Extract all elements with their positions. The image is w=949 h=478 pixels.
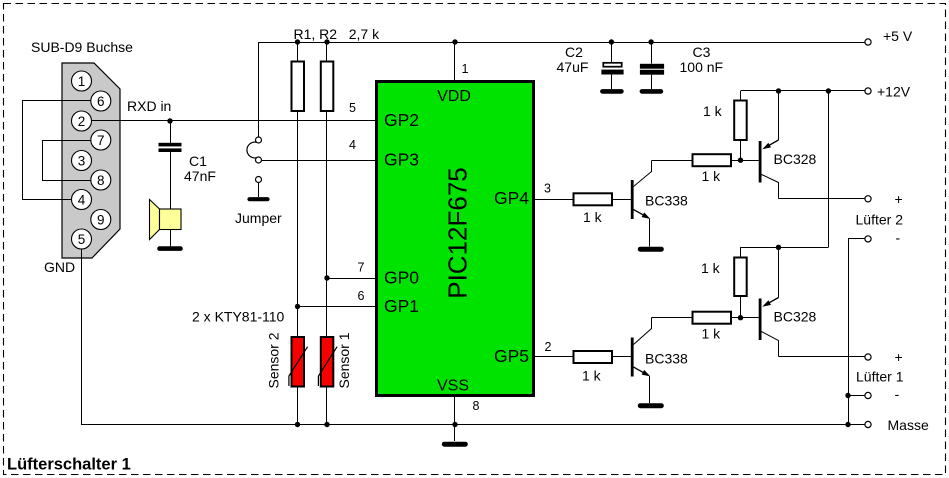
- svg-text:8: 8: [97, 173, 105, 188]
- svg-text:1 k: 1 k: [701, 260, 721, 276]
- connector pin 2: [72, 111, 92, 131]
- svg-text:VSS: VSS: [437, 378, 469, 395]
- svg-text:GP5: GP5: [494, 346, 529, 366]
- svg-text:3: 3: [78, 153, 86, 168]
- capacitor C2 47uF: [609, 39, 614, 44]
- svg-text:100 nF: 100 nF: [680, 59, 724, 75]
- svg-text:BC328: BC328: [774, 151, 817, 167]
- wire net GP5 to base resistor: [535, 356, 574, 358]
- resistor R1: [297, 42, 299, 62]
- wire jumper pullup drop from +5V rail: [258, 42, 260, 137]
- connector pin 8: [91, 170, 111, 190]
- ground C3: [642, 89, 661, 94]
- speaker buzzer: [150, 200, 160, 240]
- junction minus bus ground rail: [845, 422, 850, 427]
- wire speaker to ground: [170, 230, 172, 247]
- svg-text:GP3: GP3: [384, 150, 419, 170]
- svg-text:Masse: Masse: [888, 417, 929, 433]
- terminal Masse: [865, 421, 871, 427]
- wire +5V top rail: [259, 42, 866, 44]
- svg-text:1 k: 1 k: [703, 103, 723, 119]
- resistor 1 k base Q1: [574, 193, 613, 205]
- junction R1 top: [295, 39, 300, 44]
- sensor Sensor 1 KTY81-110: [326, 278, 328, 337]
- connector pin 9: [91, 210, 111, 230]
- resistor 1 k pullup Q2: [740, 91, 742, 101]
- svg-text:7: 7: [358, 261, 365, 275]
- IC U1 PIC12F675: [377, 82, 534, 396]
- svg-text:Jumper: Jumper: [235, 210, 282, 226]
- junction sensor2 ground: [295, 422, 300, 427]
- wire Q3 emitter to ground: [649, 376, 651, 403]
- connector pin 1: [72, 71, 92, 91]
- jumper JP1 arc: [247, 142, 257, 158]
- ground VSS: [444, 442, 465, 447]
- transistor Q2 collector: [762, 175, 779, 199]
- connector pin 7: [91, 130, 111, 150]
- svg-text:GP2: GP2: [384, 110, 419, 130]
- wire +12V rail: [741, 90, 866, 92]
- svg-text:9: 9: [97, 212, 105, 227]
- ground Q3 emitter: [640, 403, 661, 408]
- junction minus bus Luefter 1: [845, 393, 850, 398]
- svg-text:1: 1: [462, 62, 469, 76]
- wire jumper lower pin to ground: [258, 183, 260, 198]
- junction RXD/C1: [167, 118, 172, 123]
- connector J1 SUB-D9 body: [62, 63, 120, 258]
- terminal +12V: [865, 88, 871, 94]
- connector pin 4: [72, 190, 92, 210]
- svg-text:1: 1: [78, 74, 86, 89]
- junction Q4 emitter feed: [776, 245, 781, 250]
- wire resistor to Q3 base: [612, 356, 631, 358]
- wire Q3 collector to 1 k: [652, 317, 693, 319]
- connector pin 3: [72, 151, 92, 171]
- svg-text:GND: GND: [44, 259, 75, 275]
- svg-text:-: -: [895, 386, 900, 402]
- wire resistor to Q1 base: [612, 199, 631, 201]
- resistor R2: [326, 42, 328, 62]
- svg-text:-: -: [896, 230, 901, 246]
- ground C2: [602, 89, 621, 94]
- wire R2 bottom to GP0: [326, 111, 328, 278]
- svg-text:RXD in: RXD in: [127, 98, 171, 114]
- transistor Q1 BC338 base bar: [631, 180, 634, 219]
- wire Q4 collector to Luefter 1 +: [779, 356, 866, 358]
- svg-text:+12V: +12V: [877, 84, 911, 100]
- wire channel2 +12V feed rail: [741, 247, 829, 249]
- svg-text:1 k: 1 k: [702, 326, 722, 342]
- junction VDD rail: [452, 39, 457, 44]
- transistor Q3 BC338 base bar: [631, 338, 634, 377]
- transistor Q3 collector: [634, 318, 652, 345]
- jumper JP1 middle pin: [256, 157, 262, 163]
- junction VSS ground rail: [452, 422, 457, 427]
- wire net GP4 to base resistor: [535, 199, 574, 201]
- junction GP0/sensor1: [324, 275, 329, 280]
- wire coupling resistor to Q4 base: [731, 317, 759, 319]
- transistor Q2 BC328 base bar: [759, 141, 762, 183]
- ground Q1 emitter: [640, 247, 661, 252]
- junction sensor1 ground: [324, 422, 329, 427]
- svg-text:C3: C3: [693, 44, 711, 60]
- svg-text:PIC12F675: PIC12F675: [443, 167, 473, 299]
- terminal Luefter 1 +: [865, 354, 871, 360]
- junction GP1/sensor2: [295, 304, 300, 309]
- wire Q1 emitter to ground: [649, 219, 651, 247]
- svg-text:1 k: 1 k: [582, 368, 602, 384]
- wire net GP3: jumper to chip: [262, 160, 376, 162]
- resistor 1 k Q1-Q2 coupling: [693, 154, 732, 166]
- wire +12V feed to channel 2: [828, 91, 830, 247]
- svg-text:C2: C2: [565, 44, 583, 60]
- wire coupling resistor to Q2 base: [731, 160, 759, 162]
- svg-text:VDD: VDD: [437, 88, 471, 105]
- connector pin 5: [72, 229, 92, 249]
- transistor Q4 collector: [762, 332, 779, 357]
- svg-text:GP4: GP4: [494, 188, 529, 208]
- wire Q2 collector to Luefter 2 +: [779, 198, 866, 200]
- ground jumper: [250, 197, 268, 201]
- wire pin7 to pin8 bracket: [43, 141, 91, 181]
- svg-text:+: +: [895, 349, 903, 365]
- svg-text:Lüfter 2: Lüfter 2: [856, 212, 904, 228]
- wire net RXD: pin2 to GP2: [92, 120, 376, 122]
- svg-text:Lüfter 1: Lüfter 1: [856, 369, 904, 385]
- transistor Q1 emitter: [634, 210, 649, 218]
- svg-text:SUB-D9 Buchse: SUB-D9 Buchse: [31, 39, 133, 55]
- resistor 1 k pullup Q4: [740, 247, 742, 257]
- svg-text:GP1: GP1: [384, 296, 419, 316]
- svg-text:5: 5: [349, 101, 356, 115]
- svg-text:47nF: 47nF: [184, 168, 216, 184]
- wire Luefter 2 - to minus bus: [849, 239, 865, 425]
- wire R1 bottom to GP1: [297, 111, 299, 307]
- wire pin6 to pin4 bracket: [23, 101, 91, 200]
- terminal +5 V: [865, 39, 871, 45]
- ground speaker: [160, 246, 181, 251]
- wire net GP1: [298, 306, 376, 308]
- wire net GP0: [327, 278, 376, 280]
- terminal Luefter 2 +: [865, 196, 871, 202]
- transistor Q2 emitter: [778, 91, 780, 140]
- svg-text:4: 4: [349, 138, 356, 152]
- transistor Q4 emitter: [778, 247, 780, 297]
- connector pin 6: [91, 91, 111, 111]
- capacitor C1: [170, 121, 172, 143]
- junction base Q4 / pullup: [738, 315, 743, 320]
- junction R2 top: [324, 39, 329, 44]
- wire VDD pin to +5V rail: [454, 42, 456, 81]
- svg-text:1 k: 1 k: [583, 209, 603, 225]
- svg-text:Lüfterschalter 1: Lüfterschalter 1: [7, 456, 131, 474]
- svg-text:2: 2: [545, 340, 552, 354]
- svg-text:BC338: BC338: [645, 351, 688, 367]
- svg-text:47uF: 47uF: [557, 59, 589, 75]
- wire VSS pin to ground rail: [454, 397, 456, 425]
- svg-text:4: 4: [78, 192, 86, 207]
- svg-text:7: 7: [97, 133, 105, 148]
- svg-text:+5 V: +5 V: [883, 28, 913, 44]
- junction +12V drop: [826, 88, 831, 93]
- svg-text:5: 5: [78, 232, 86, 247]
- svg-text:BC338: BC338: [645, 193, 688, 209]
- transistor Q3 emitter: [634, 367, 649, 375]
- wire Luefter 1 - stub: [848, 395, 865, 397]
- junction base Q2 / pullup: [738, 158, 743, 163]
- wire net GND rail: pin5 down and across bottom: [82, 249, 865, 425]
- svg-text:Sensor 2: Sensor 2: [266, 332, 282, 388]
- capacitor C3 100 nF: [648, 39, 653, 44]
- svg-text:+: +: [895, 191, 903, 207]
- svg-text:GP0: GP0: [384, 268, 419, 288]
- svg-text:Sensor 1: Sensor 1: [336, 332, 352, 388]
- svg-text:R1, R2 2,7 k: R1, R2 2,7 k: [294, 26, 381, 42]
- svg-text:6: 6: [97, 94, 105, 109]
- sensor Sensor 2 KTY81-110: [297, 307, 299, 338]
- svg-text:2 x KTY81-110: 2 x KTY81-110: [192, 309, 285, 325]
- svg-text:C1: C1: [189, 153, 207, 169]
- terminal Luefter 1 -: [865, 392, 871, 398]
- resistor 1 k Q3-Q4 coupling: [693, 312, 732, 324]
- svg-text:2: 2: [78, 114, 86, 129]
- svg-text:BC328: BC328: [774, 309, 817, 325]
- jumper JP1 top pin: [256, 137, 262, 143]
- svg-text:3: 3: [544, 182, 551, 196]
- junction +12V / Q2 emitter: [776, 88, 781, 93]
- wire Q1 collector to 1 k: [652, 160, 693, 162]
- wire VSS to ground symbol: [454, 425, 456, 442]
- svg-text:1 k: 1 k: [702, 168, 722, 184]
- resistor 1 k base Q3: [574, 351, 613, 363]
- terminal Luefter 2 -: [865, 236, 871, 242]
- jumper JP1 lower pin: [256, 177, 262, 183]
- transistor Q4 BC328 base bar: [759, 299, 762, 341]
- svg-text:6: 6: [358, 289, 365, 303]
- svg-text:8: 8: [473, 399, 480, 413]
- transistor Q1 collector: [634, 161, 652, 187]
